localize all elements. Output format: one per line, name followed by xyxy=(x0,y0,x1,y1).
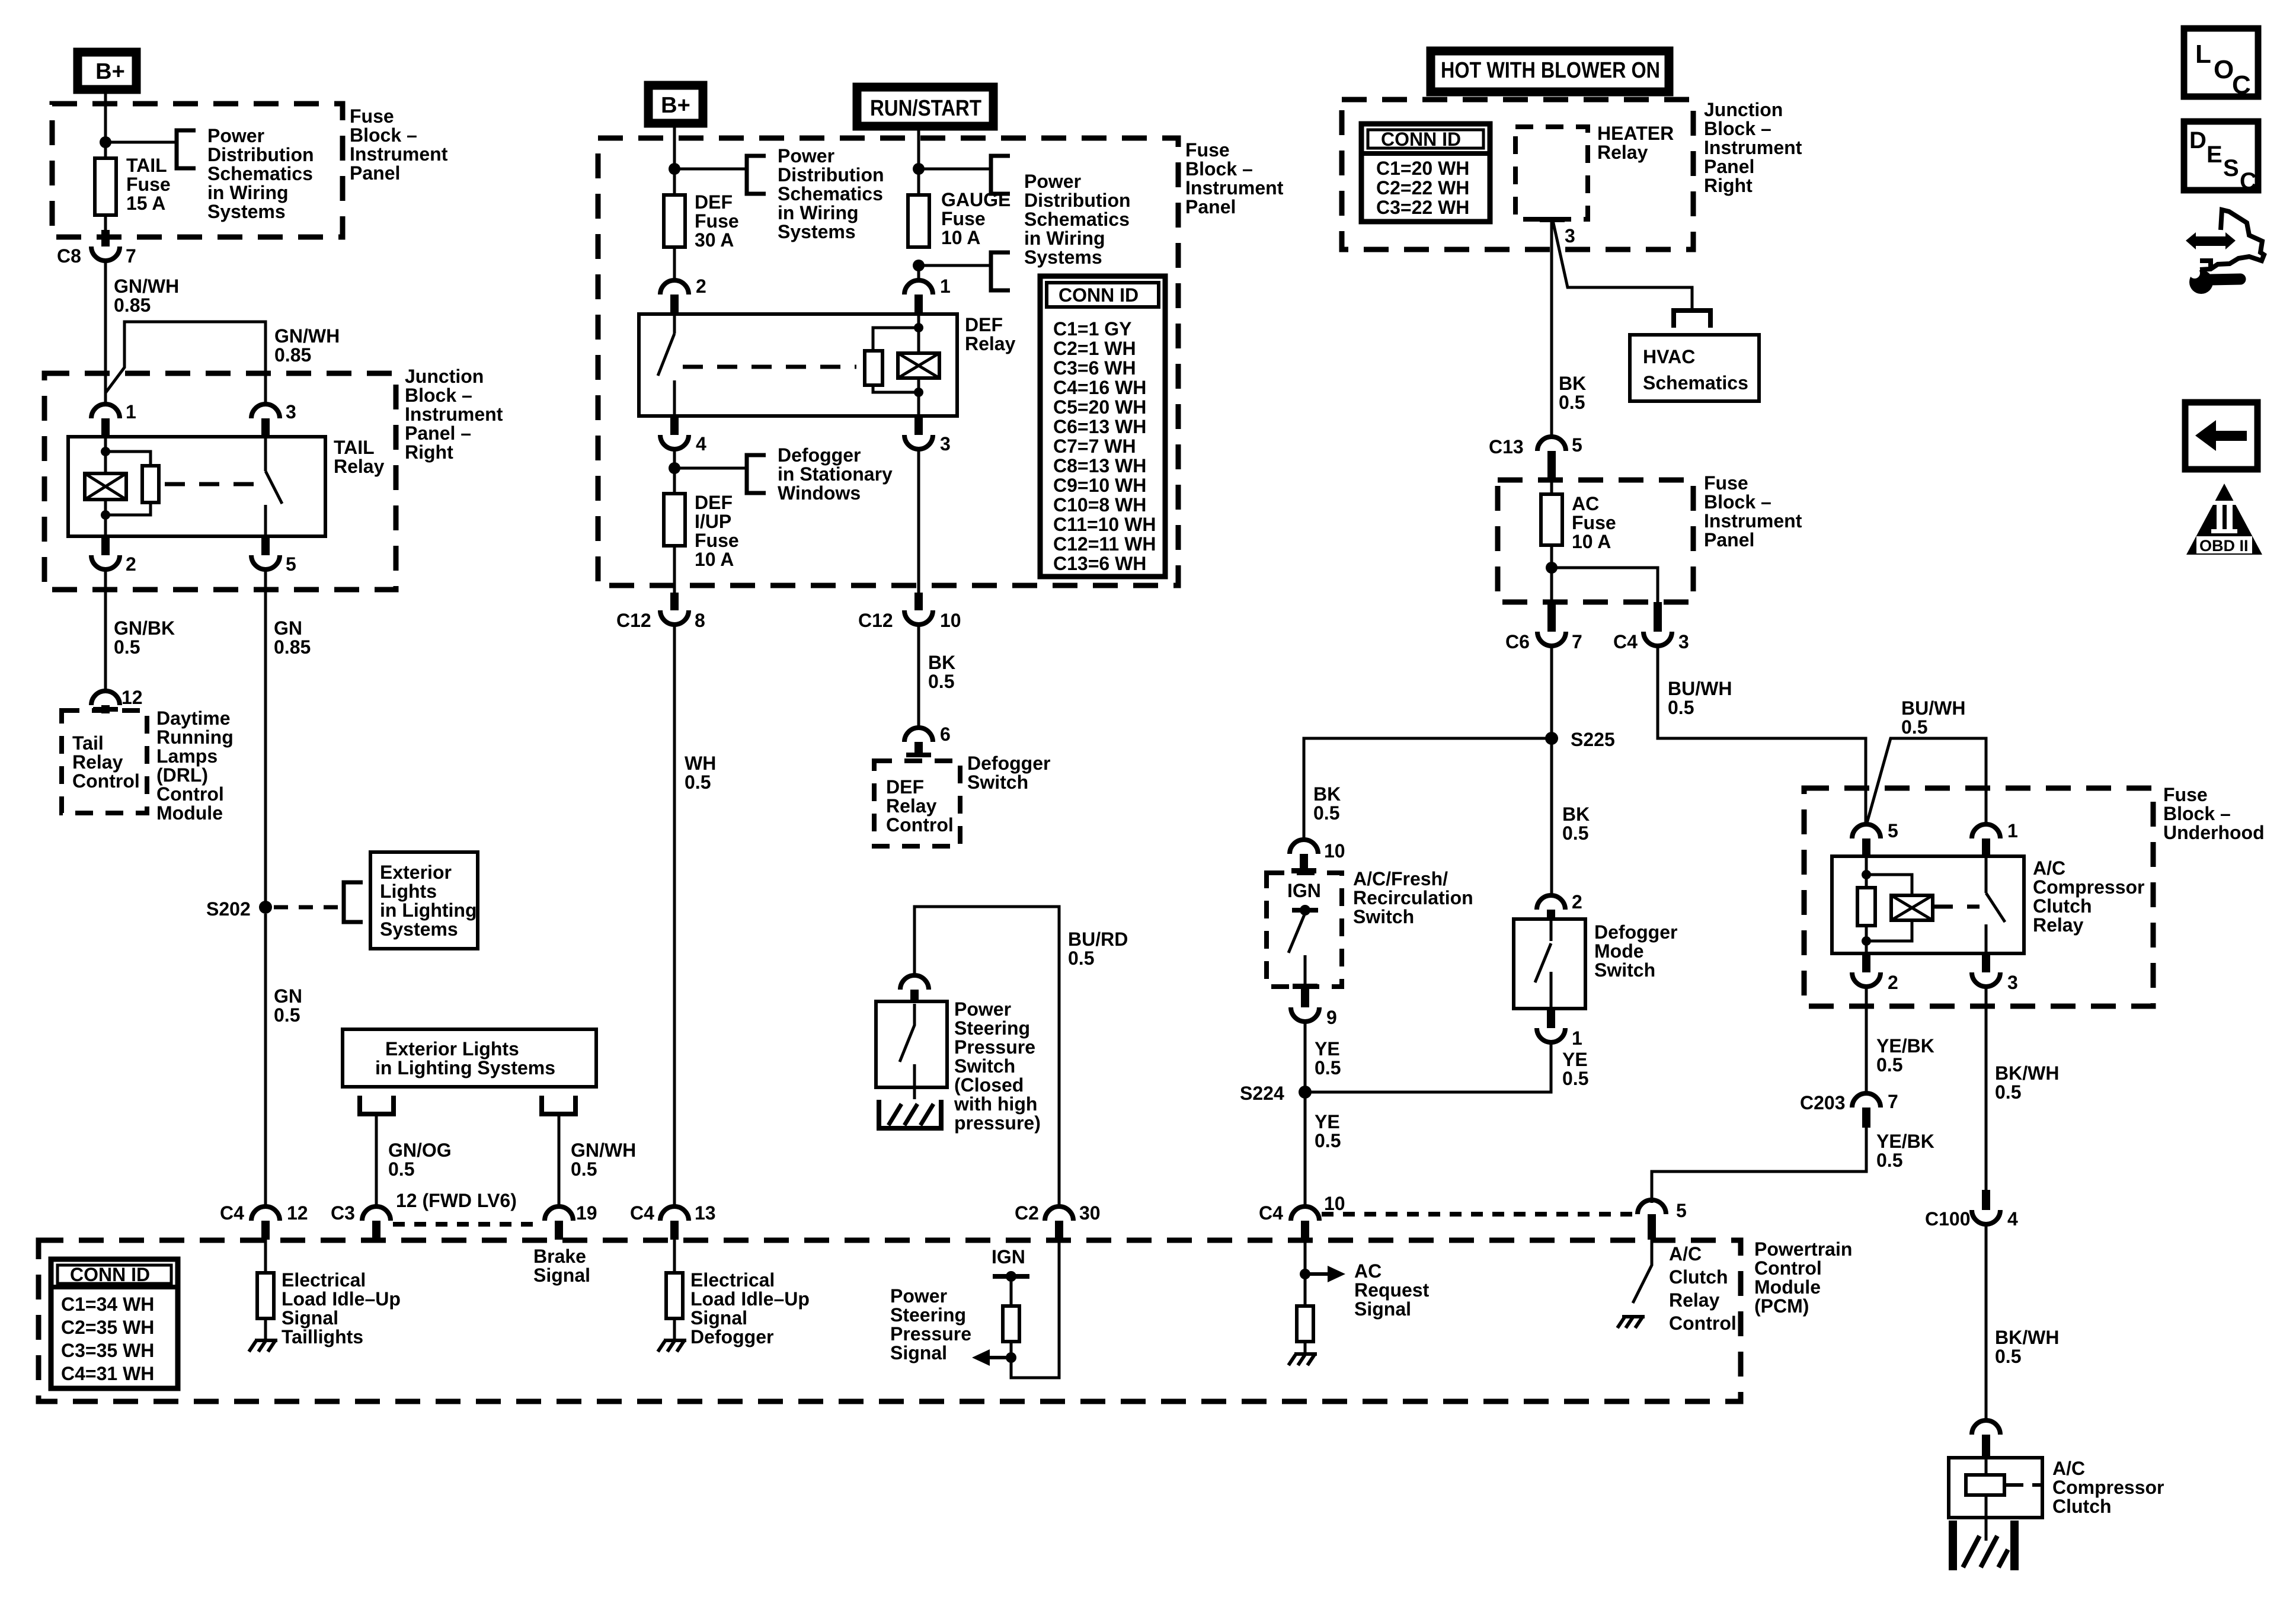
svg-text:Module: Module xyxy=(1754,1276,1821,1298)
wire fuse to C8 xyxy=(104,215,107,232)
svg-text:C1=1 GY: C1=1 GY xyxy=(1053,318,1132,340)
IGN rail bar xyxy=(993,1271,1029,1282)
fuse DEF 30A xyxy=(664,195,685,247)
svg-text:Block –: Block – xyxy=(1704,118,1771,139)
svg-text:Junction: Junction xyxy=(405,366,484,387)
label Brake Signal xyxy=(533,1246,590,1286)
svg-text:Clutch: Clutch xyxy=(1669,1266,1728,1288)
svg-text:2: 2 xyxy=(126,553,136,575)
svg-text:C2=1 WH: C2=1 WH xyxy=(1053,338,1136,359)
wire branch GN/WH to pin 3 xyxy=(105,322,266,403)
dashed box Fuse Block - Underhood xyxy=(1804,788,2153,1006)
svg-text:IGN: IGN xyxy=(992,1246,1025,1267)
svg-text:YE: YE xyxy=(1315,1038,1340,1060)
svg-text:C1=34 WH: C1=34 WH xyxy=(61,1294,154,1315)
svg-text:C4: C4 xyxy=(1259,1202,1283,1224)
node S224 xyxy=(1240,1083,1312,1104)
svg-text:Running: Running xyxy=(156,726,234,748)
svg-text:Block –: Block – xyxy=(405,385,472,406)
connector C4 pin 12 xyxy=(220,1202,308,1240)
svg-text:Block –: Block – xyxy=(2163,803,2231,824)
svg-text:C11=10 WH: C11=10 WH xyxy=(1053,514,1156,535)
svg-text:0.5: 0.5 xyxy=(1068,948,1094,969)
dashed box Junction Block - Instrument Panel Right xyxy=(1342,100,1693,249)
dashed box Tail Relay Control xyxy=(62,710,147,813)
svg-text:S202: S202 xyxy=(206,898,251,920)
svg-text:GN/OG: GN/OG xyxy=(388,1140,452,1161)
svg-text:Signal: Signal xyxy=(1354,1298,1411,1320)
box Power Steering Pressure Switch xyxy=(876,1001,947,1087)
node PS signal xyxy=(1006,1352,1016,1363)
table CONN ID (junction block right) xyxy=(1361,124,1490,222)
svg-text:in Lighting: in Lighting xyxy=(380,900,477,921)
pin 9 connector xyxy=(1291,989,1337,1028)
wire YE to S224 xyxy=(1304,1022,1307,1092)
svg-text:0.5: 0.5 xyxy=(1313,802,1339,824)
svg-text:C2=35 WH: C2=35 WH xyxy=(61,1317,154,1338)
relay A/C coil xyxy=(1891,895,1933,920)
wire to ground xyxy=(264,1318,267,1340)
wire taillight idle-up xyxy=(264,1240,267,1273)
icon OBD II triangle xyxy=(2186,484,2262,555)
svg-text:Schematics: Schematics xyxy=(207,163,313,184)
svg-text:30 A: 30 A xyxy=(695,229,734,251)
svg-text:3: 3 xyxy=(286,401,296,422)
svg-text:Brake: Brake xyxy=(533,1246,586,1267)
pin 3 connector (DEF relay) xyxy=(904,416,951,454)
wire S224 to defogger mode switch xyxy=(1305,1044,1551,1092)
box Defogger Mode Switch xyxy=(1514,919,1585,1009)
svg-text:Steering: Steering xyxy=(954,1017,1030,1039)
svg-text:BK: BK xyxy=(928,652,955,673)
label Powertrain Control Module (PCM) xyxy=(1754,1238,1852,1317)
svg-text:0.85: 0.85 xyxy=(114,295,151,316)
svg-text:RUN/START: RUN/START xyxy=(870,96,981,121)
svg-text:Fuse: Fuse xyxy=(2163,784,2208,805)
box HVAC Schematics xyxy=(1630,335,1759,401)
resistor (DEF relay) xyxy=(865,351,882,385)
pin 1 connector (DEF relay) xyxy=(904,276,951,314)
node S202 xyxy=(206,898,272,920)
svg-text:Electrical: Electrical xyxy=(690,1269,775,1291)
svg-text:3: 3 xyxy=(1678,631,1689,652)
svg-text:BK/WH: BK/WH xyxy=(1995,1062,2059,1084)
fuse DEF I/UP 10A xyxy=(664,494,685,546)
wire GAUGE fuse to pin 1 xyxy=(917,265,920,280)
svg-text:7: 7 xyxy=(1888,1091,1898,1112)
node AC fuse out xyxy=(1546,562,1558,574)
svg-text:1: 1 xyxy=(1572,1028,1582,1049)
svg-text:Relay: Relay xyxy=(334,456,385,477)
svg-text:Relay: Relay xyxy=(2033,914,2084,936)
wire to PDS bracket (upper right) xyxy=(919,168,991,171)
node coil bottom xyxy=(101,510,110,520)
svg-text:Right: Right xyxy=(405,441,453,463)
svg-text:Tail: Tail xyxy=(72,732,104,754)
svg-text:0.5: 0.5 xyxy=(1562,822,1588,844)
wire to ground xyxy=(1304,1342,1307,1353)
svg-text:Schematics: Schematics xyxy=(1024,209,1130,230)
svg-text:C4=31 WH: C4=31 WH xyxy=(61,1363,154,1384)
wire C6-7 to S225 xyxy=(1550,646,1553,738)
wire BU/WH right run (to pin 5) xyxy=(1658,646,1866,824)
svg-text:Systems: Systems xyxy=(778,221,856,242)
svg-text:Control: Control xyxy=(1669,1313,1737,1334)
svg-text:C8=13 WH: C8=13 WH xyxy=(1053,455,1146,476)
svg-text:3: 3 xyxy=(2007,972,2018,993)
dashed pointer S202 xyxy=(274,905,338,910)
svg-text:Switch: Switch xyxy=(1594,959,1655,981)
pin 2 connector (AC relay) xyxy=(1852,953,1898,993)
label Power Steering Pressure Switch xyxy=(954,998,1041,1134)
svg-text:GN: GN xyxy=(274,985,302,1007)
svg-text:0.5: 0.5 xyxy=(1668,697,1694,718)
svg-text:Windows: Windows xyxy=(778,482,861,504)
relay DEF coil xyxy=(898,353,939,378)
svg-text:CONN ID: CONN ID xyxy=(70,1264,150,1285)
wire BK 0.5 (defogger switch) xyxy=(917,625,920,728)
heater relay pin 3 T-bar xyxy=(1540,217,1565,222)
pin 10 connector (recirc switch) xyxy=(1290,840,1345,873)
svg-text:Instrument: Instrument xyxy=(1704,510,1802,532)
svg-text:TAIL: TAIL xyxy=(334,437,375,458)
svg-text:Compressor: Compressor xyxy=(2033,876,2145,898)
svg-text:C12: C12 xyxy=(858,610,893,631)
svg-text:C8: C8 xyxy=(57,245,81,267)
wire WH 0.5 xyxy=(673,625,676,1206)
svg-text:Instrument: Instrument xyxy=(1185,177,1284,199)
svg-text:GN: GN xyxy=(274,617,302,639)
svg-text:Relay: Relay xyxy=(72,751,123,773)
svg-text:BK/WH: BK/WH xyxy=(1995,1327,2059,1348)
resistor taillight load xyxy=(257,1273,274,1318)
svg-text:C4: C4 xyxy=(1613,631,1638,652)
svg-text:Block –: Block – xyxy=(1185,158,1253,180)
node DEF feed xyxy=(669,163,680,175)
svg-text:13: 13 xyxy=(695,1202,716,1224)
wire YE/BK to PCM pin 5 xyxy=(1652,1128,1866,1203)
bracket HVAC xyxy=(1674,311,1710,328)
svg-text:0.5: 0.5 xyxy=(388,1158,414,1180)
svg-text:9: 9 xyxy=(1326,1007,1337,1028)
svg-text:Relay: Relay xyxy=(886,795,937,817)
svg-text:Power: Power xyxy=(778,145,834,167)
recirc switch contact xyxy=(1288,905,1318,989)
wire DEF fuse to pin 2 xyxy=(673,247,676,280)
svg-text:Daytime: Daytime xyxy=(156,708,231,729)
connector pin 5 (PCM) xyxy=(1638,1200,1687,1240)
svg-text:C3: C3 xyxy=(331,1202,355,1224)
wire to PDS bracket (lower right) xyxy=(919,264,991,267)
arrow PS signal (left) xyxy=(972,1349,1009,1366)
label DRL control module xyxy=(156,708,234,824)
svg-text:19: 19 xyxy=(576,1202,597,1224)
svg-text:0.5: 0.5 xyxy=(928,671,954,692)
svg-text:C3=35 WH: C3=35 WH xyxy=(61,1340,154,1361)
label BK 0.5 (below S225) xyxy=(1562,804,1590,844)
svg-text:BK: BK xyxy=(1559,373,1586,394)
svg-text:E: E xyxy=(2207,142,2223,168)
dashed box HEATER Relay xyxy=(1515,127,1588,219)
svg-text:S224: S224 xyxy=(1240,1083,1284,1104)
relay TAIL resistor branch xyxy=(105,452,151,515)
wire BU/RD top run xyxy=(914,907,1059,1206)
svg-text:AC: AC xyxy=(1354,1260,1382,1282)
dashed box IGN (recirc switch) xyxy=(1267,873,1342,987)
node fuse feed xyxy=(100,136,111,148)
svg-text:Relay: Relay xyxy=(1669,1289,1720,1311)
svg-text:OBD II: OBD II xyxy=(2199,537,2249,555)
svg-text:Schematics: Schematics xyxy=(1643,372,1748,393)
svg-text:Fuse: Fuse xyxy=(1185,139,1230,161)
pin 6 connector (defogger switch) xyxy=(904,724,951,757)
wire diagonal to HVAC xyxy=(1553,220,1692,309)
wire DEF I/UP fuse to C12 xyxy=(673,546,676,595)
table CONN ID (PCM) xyxy=(51,1259,178,1388)
pin 2 connector xyxy=(91,536,136,575)
wire resistor to node xyxy=(1010,1342,1013,1358)
A/C clutch relay control switch xyxy=(1633,1240,1652,1303)
svg-text:0.85: 0.85 xyxy=(274,344,311,366)
wire BK/WH to C100 xyxy=(1985,987,1988,1192)
label BU/WH 0.5 (C4-3) xyxy=(1668,678,1732,718)
svg-text:C2: C2 xyxy=(1015,1202,1039,1224)
svg-text:Relay: Relay xyxy=(1597,142,1648,163)
svg-text:HVAC: HVAC xyxy=(1643,346,1695,367)
svg-text:Powertrain: Powertrain xyxy=(1754,1238,1852,1260)
svg-text:Fuse: Fuse xyxy=(941,208,986,229)
svg-text:Switch: Switch xyxy=(1353,906,1414,927)
wire S225 down xyxy=(1550,738,1553,895)
svg-text:1: 1 xyxy=(940,276,951,297)
pin 5 connector xyxy=(251,536,296,575)
relay DEF dashed actuation link xyxy=(683,365,856,369)
svg-text:4: 4 xyxy=(2007,1208,2018,1230)
svg-text:HOT WITH BLOWER ON: HOT WITH BLOWER ON xyxy=(1441,58,1660,83)
svg-text:Defogger: Defogger xyxy=(967,753,1050,774)
pin 2 connector (DEF relay) xyxy=(660,276,706,314)
svg-text:IGN: IGN xyxy=(1287,880,1321,901)
wire BU/WH feed to pin 1 (diagonal) xyxy=(1867,738,1986,824)
svg-text:Right: Right xyxy=(1704,175,1753,196)
relay DEF switch xyxy=(658,314,674,416)
box Exterior Lights in Lighting Systems (small) xyxy=(370,852,478,949)
svg-text:GN/WH: GN/WH xyxy=(571,1140,636,1161)
box Exterior Lights in Lighting Systems (wide) xyxy=(343,1029,596,1087)
svg-text:Defogger: Defogger xyxy=(778,444,861,466)
connector C4 pin 10 xyxy=(1259,1193,1345,1240)
svg-text:Load Idle–Up: Load Idle–Up xyxy=(690,1288,810,1310)
svg-text:Electrical: Electrical xyxy=(282,1269,366,1291)
svg-text:GN/WH: GN/WH xyxy=(274,325,340,347)
svg-text:S: S xyxy=(2223,155,2239,181)
power feed B+ (left) xyxy=(78,52,136,89)
node below GAUGE fuse xyxy=(913,260,925,271)
relay A/C coil branch xyxy=(1866,875,1912,941)
wire to defogger bracket xyxy=(674,467,747,470)
svg-text:2: 2 xyxy=(1888,972,1898,993)
relay A/C compressor clutch box xyxy=(1832,856,2024,953)
svg-text:B+: B+ xyxy=(661,93,690,118)
svg-text:C2=22 WH: C2=22 WH xyxy=(1376,177,1469,199)
resistor (TAIL relay) xyxy=(142,466,159,502)
svg-text:I/UP: I/UP xyxy=(695,511,731,532)
svg-text:Fuse: Fuse xyxy=(1572,512,1616,533)
icon arrow-wrench xyxy=(2185,210,2264,294)
svg-text:Lamps: Lamps xyxy=(156,745,218,767)
label Power Steering Pressure Signal xyxy=(890,1285,971,1363)
bracket PDS middle-left xyxy=(747,156,766,194)
svg-text:in Lighting Systems: in Lighting Systems xyxy=(375,1057,555,1078)
wire IGN to resistor xyxy=(1010,1276,1013,1306)
svg-text:Distribution: Distribution xyxy=(778,164,884,185)
svg-text:Panel: Panel xyxy=(350,162,400,184)
label Defogger in Stationary Windows xyxy=(778,444,893,504)
svg-text:Panel: Panel xyxy=(1185,196,1236,217)
bracket PDS right lower xyxy=(991,252,1010,290)
svg-text:Power: Power xyxy=(1024,171,1081,192)
svg-text:0.5: 0.5 xyxy=(685,772,711,793)
label A/C Clutch Relay Control xyxy=(1669,1243,1737,1334)
svg-text:C9=10 WH: C9=10 WH xyxy=(1053,475,1146,496)
wire to PDS bracket xyxy=(105,141,177,144)
svg-text:Schematics: Schematics xyxy=(778,183,883,204)
label BK 0.5 (left branch) xyxy=(1313,783,1341,824)
relay TAIL coil wire xyxy=(104,437,107,536)
svg-text:Relay: Relay xyxy=(965,333,1016,354)
component A/C Compressor Clutch xyxy=(1949,1458,2042,1518)
svg-text:10: 10 xyxy=(940,610,961,631)
wire to ground xyxy=(673,1318,676,1340)
svg-text:Fuse: Fuse xyxy=(126,174,171,195)
wire GN/WH 0.5 xyxy=(558,1114,561,1206)
node bottom xyxy=(1862,936,1871,946)
wire B+ down xyxy=(673,127,676,194)
svg-text:Switch: Switch xyxy=(967,772,1028,793)
svg-text:DEF: DEF xyxy=(695,492,733,513)
svg-text:1: 1 xyxy=(126,401,136,422)
dashed box Junction Block - Instrument Panel - Right (left) xyxy=(44,373,396,590)
svg-text:Fuse: Fuse xyxy=(350,105,394,127)
svg-text:CONN ID: CONN ID xyxy=(1381,129,1461,150)
connector C8 pin 7 xyxy=(57,230,136,267)
svg-text:C6: C6 xyxy=(1505,631,1530,652)
svg-text:5: 5 xyxy=(1572,434,1582,456)
svg-text:30: 30 xyxy=(1079,1202,1101,1224)
node coil top xyxy=(101,447,110,456)
svg-text:pressure): pressure) xyxy=(954,1112,1041,1134)
node coil top xyxy=(914,323,923,332)
relay TAIL box xyxy=(68,437,325,536)
svg-text:C12=11 WH: C12=11 WH xyxy=(1053,533,1156,555)
pin 2 connector (defogger mode switch) xyxy=(1537,891,1582,920)
svg-text:Exterior: Exterior xyxy=(380,862,452,883)
svg-text:YE/BK: YE/BK xyxy=(1876,1131,1934,1152)
wire defogger idle-up xyxy=(673,1240,676,1273)
svg-text:YE: YE xyxy=(1315,1111,1340,1132)
svg-text:L: L xyxy=(2195,40,2211,69)
pin 3 connector xyxy=(251,401,296,437)
svg-text:Clutch: Clutch xyxy=(2033,895,2092,917)
svg-text:4: 4 xyxy=(696,433,706,454)
relay DEF coil wire xyxy=(917,314,920,416)
label Electrical Load Idle-Up Signal Defogger xyxy=(690,1269,810,1347)
svg-text:BU/WH: BU/WH xyxy=(1668,678,1732,699)
svg-text:A/C: A/C xyxy=(2052,1458,2085,1479)
dashed box Fuse Block - Instrument Panel (left) xyxy=(52,104,343,237)
label YE 0.5 (mode switch) xyxy=(1562,1049,1588,1089)
svg-text:0.5: 0.5 xyxy=(1315,1057,1341,1078)
node AC request xyxy=(1300,1269,1310,1279)
connector C2 pin 30 xyxy=(1015,1202,1101,1240)
svg-text:Distribution: Distribution xyxy=(207,144,314,165)
wire pin4 down xyxy=(673,450,676,494)
svg-text:Signal: Signal xyxy=(282,1307,338,1329)
svg-text:Instrument: Instrument xyxy=(350,143,448,165)
label Power Distribution Schematics (right) xyxy=(1024,171,1131,268)
svg-text:2: 2 xyxy=(1572,891,1582,913)
wire heater relay to C13 xyxy=(1550,219,1553,437)
svg-text:B+: B+ xyxy=(95,59,125,84)
svg-text:C: C xyxy=(2240,168,2257,194)
connector (compressor clutch) xyxy=(1972,1420,2000,1458)
wire GN/WH xyxy=(104,261,107,403)
svg-text:0.5: 0.5 xyxy=(1562,1068,1588,1089)
icon left arrow box xyxy=(2185,402,2257,469)
dotted link C4-10 to pin 5 xyxy=(1322,1212,1635,1217)
dashed box Powertrain Control Module xyxy=(39,1240,1741,1401)
dashed box DEF Relay Control xyxy=(874,761,960,846)
svg-text:Pressure: Pressure xyxy=(954,1036,1035,1058)
svg-text:10 A: 10 A xyxy=(695,549,734,570)
svg-text:Systems: Systems xyxy=(207,201,286,222)
svg-text:10 A: 10 A xyxy=(1572,531,1611,552)
connector C12 pin 8 xyxy=(616,593,705,631)
svg-text:A/C: A/C xyxy=(2033,857,2065,879)
svg-text:C13=6 WH: C13=6 WH xyxy=(1053,553,1146,574)
ground (taillights) xyxy=(249,1340,277,1352)
svg-text:Signal: Signal xyxy=(890,1342,947,1363)
svg-text:Panel: Panel xyxy=(1704,529,1754,550)
svg-text:0.5: 0.5 xyxy=(114,636,140,658)
table CONN ID (middle) xyxy=(1040,276,1165,577)
pin 1 connector xyxy=(91,401,136,437)
svg-text:BK: BK xyxy=(1562,804,1590,825)
label Electrical Load Idle-Up Signal Taillights xyxy=(282,1269,401,1347)
svg-text:C100: C100 xyxy=(1925,1208,1971,1230)
svg-text:12 (FWD LV6): 12 (FWD LV6) xyxy=(396,1190,517,1211)
svg-text:(DRL): (DRL) xyxy=(156,764,208,786)
svg-text:YE: YE xyxy=(1562,1049,1588,1070)
svg-text:6: 6 xyxy=(940,724,951,745)
label Power Distribution Schematics (middle) xyxy=(778,145,884,242)
svg-text:C6=13 WH: C6=13 WH xyxy=(1053,416,1146,437)
connector C100 pin 4 xyxy=(1925,1190,2018,1230)
svg-text:5: 5 xyxy=(286,553,296,575)
pin 12 connector xyxy=(91,687,143,713)
svg-text:Control: Control xyxy=(156,783,224,805)
svg-text:Request: Request xyxy=(1354,1279,1430,1301)
svg-text:(Closed: (Closed xyxy=(954,1074,1024,1096)
svg-text:15 A: 15 A xyxy=(126,193,165,214)
relay TAIL switch xyxy=(266,437,282,536)
svg-text:C13: C13 xyxy=(1489,436,1524,457)
wire RUN/START down xyxy=(917,129,920,194)
svg-text:Clutch: Clutch xyxy=(2052,1496,2112,1517)
connector C4 pin 3 xyxy=(1613,602,1689,652)
svg-text:Signal: Signal xyxy=(690,1307,747,1329)
dashed box Fuse Block - Instrument Panel (right) xyxy=(1498,480,1693,602)
